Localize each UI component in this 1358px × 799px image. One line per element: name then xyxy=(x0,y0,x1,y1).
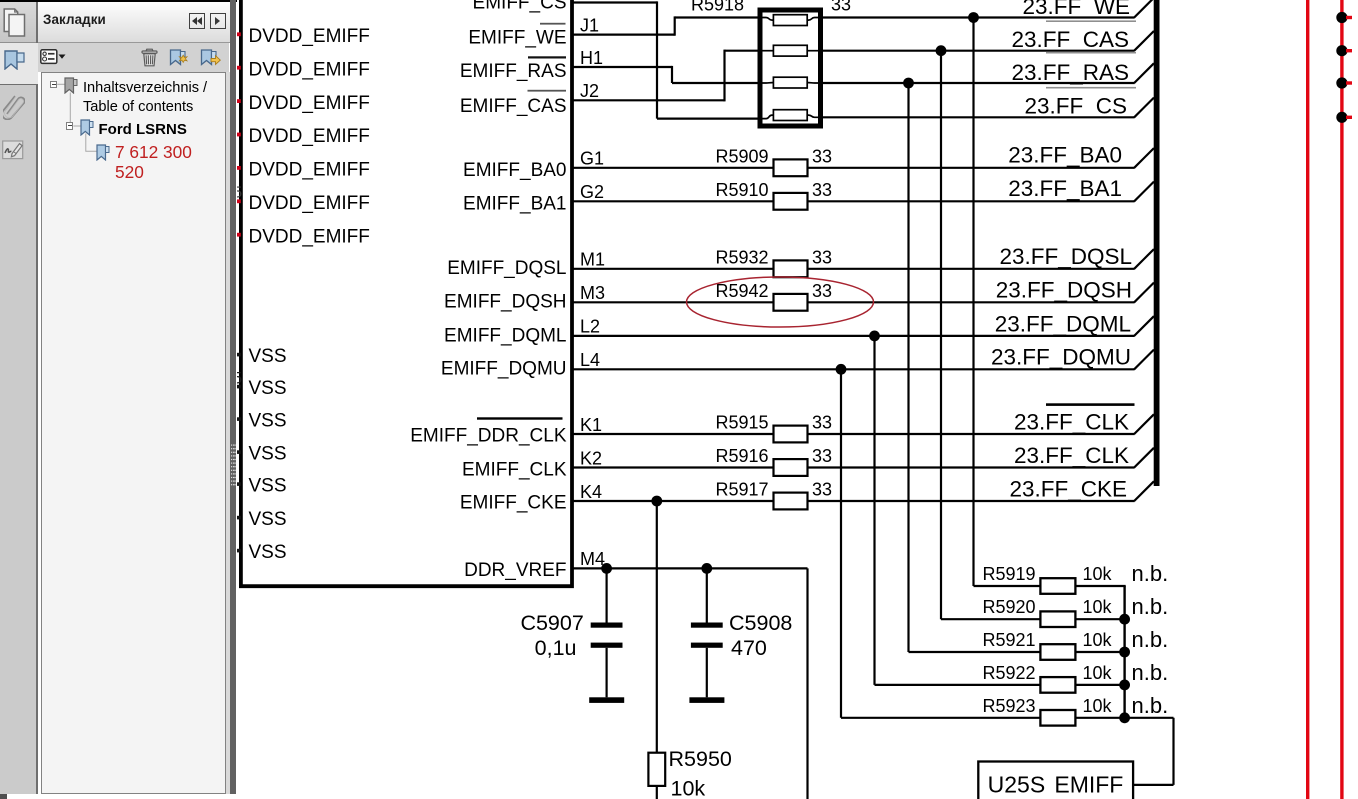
vertical net from CAS junction to R5920 xyxy=(940,51,942,620)
junction on 23.FF_WE xyxy=(968,12,979,23)
vertical net from RAS junction to R5921 xyxy=(907,83,909,652)
ghost underline row2 xyxy=(1046,52,1136,54)
sidebar divider line xyxy=(36,2,38,794)
ground pin stubs (black) on IC left edge xyxy=(235,353,241,553)
ghost underline row1 xyxy=(1046,20,1136,22)
svg-text:EMIFF_CS: EMIFF_CS xyxy=(473,0,567,14)
svg-text:M1: M1 xyxy=(580,250,605,270)
junction on 23.FF_DQML xyxy=(869,331,880,342)
bottom window strip xyxy=(0,794,237,799)
svg-text:VSS: VSS xyxy=(249,444,287,465)
resistor R5918 element 3 xyxy=(763,77,822,88)
svg-text:23.FF_DQSH: 23.FF_DQSH xyxy=(996,278,1132,303)
svg-text:R5950: R5950 xyxy=(669,747,732,771)
svg-text:K2: K2 xyxy=(580,448,602,468)
wire 23.FF_CKE xyxy=(572,500,1135,502)
vertical net from WE junction to R5919 xyxy=(972,18,974,587)
svg-text:EMIFF_DQSH: EMIFF_DQSH xyxy=(444,292,566,313)
junction pull-up tie xyxy=(1119,614,1130,625)
svg-text:23.FF_CKE: 23.FF_CKE xyxy=(1009,476,1127,501)
svg-text:23.FF_DQML: 23.FF_DQML xyxy=(995,311,1131,336)
vertical net from DQML junction to R5922 xyxy=(873,336,875,685)
svg-text:33: 33 xyxy=(812,247,832,267)
U25S EMIFF block xyxy=(978,762,1133,799)
off-page net name labels xyxy=(991,0,1132,501)
tree text 3 (red) xyxy=(115,143,192,183)
bookmarks header strip xyxy=(38,2,230,43)
tree text 2 xyxy=(99,121,187,138)
resistor R5932 xyxy=(774,260,808,277)
svg-text:R5920: R5920 xyxy=(982,597,1035,617)
wire 23.FF_DQSL xyxy=(572,268,1135,270)
tree connectors xyxy=(41,72,225,192)
bookmark tab (selected) in sidebar xyxy=(0,43,38,85)
overline for EMIFF_WE xyxy=(540,23,566,25)
pages icon cell xyxy=(0,2,36,43)
wire J1 to resistor row 1 xyxy=(572,16,758,35)
junction on 23.FF_RAS xyxy=(903,78,914,89)
svg-text:J2: J2 xyxy=(580,81,599,101)
overline for EMIFF_DDR_CLK xyxy=(477,417,563,419)
resistor R5942 xyxy=(774,294,808,311)
resistor R5918 element 1 xyxy=(763,15,822,26)
svg-text:10k: 10k xyxy=(1083,597,1113,617)
vertical net K4 node down to R5950 xyxy=(656,501,658,753)
svg-text:R5922: R5922 xyxy=(982,663,1035,683)
op-amp/IC U25 EMIFF processor block outline xyxy=(241,0,572,586)
svg-text:DDR_VREF: DDR_VREF xyxy=(464,560,566,581)
svg-text:10k: 10k xyxy=(1083,630,1113,650)
svg-text:EMIFF_DQML: EMIFF_DQML xyxy=(444,326,566,347)
svg-text:n.b.: n.b. xyxy=(1132,594,1169,619)
wire 23.FF_DQMU xyxy=(572,368,1135,370)
svg-text:10k: 10k xyxy=(1083,663,1113,683)
vertical net to U25S area xyxy=(806,568,808,799)
wire J2 to resistor row 2 xyxy=(572,50,758,102)
net 23.FF_WE wire xyxy=(820,16,1135,18)
schematic sheet red border line 2 xyxy=(1340,0,1343,799)
wire below R5950 xyxy=(656,786,658,799)
bus entry slashes xyxy=(1134,0,1154,501)
svg-text:R5916: R5916 xyxy=(715,446,768,466)
resistor R5920 xyxy=(1040,611,1075,627)
pin labels DVDD_EMIFF xyxy=(249,26,370,247)
svg-text:33: 33 xyxy=(812,180,832,200)
junction on sheet border xyxy=(1336,77,1352,88)
toolbar: trash icon xyxy=(141,48,158,67)
junction pull-up tie xyxy=(1119,647,1130,658)
capacitor C5908 xyxy=(689,568,724,702)
resistor R5916 xyxy=(774,459,808,476)
svg-text:G2: G2 xyxy=(580,182,604,202)
svg-text:EMIFF_CKE: EMIFF_CKE xyxy=(460,493,567,514)
svg-text:23.FF_CLK: 23.FF_CLK xyxy=(1014,409,1129,434)
svg-text:R5932: R5932 xyxy=(715,247,768,267)
svg-text:R5915: R5915 xyxy=(715,413,768,433)
svg-text:VSS: VSS xyxy=(249,476,287,497)
svg-text:33: 33 xyxy=(812,281,832,301)
tree icon 3 (blue bookmark) xyxy=(96,144,110,161)
net 23.FF_RAS wire xyxy=(820,82,1135,84)
overline for EMIFF_CAS xyxy=(528,90,567,92)
wire R5921 row xyxy=(909,651,1126,653)
toolbar strip xyxy=(38,43,229,72)
wire 23.FF_CLK(DDR) xyxy=(572,433,1135,435)
svg-text:EMIFF_DQSL: EMIFF_DQSL xyxy=(447,258,566,279)
svg-text:VSS: VSS xyxy=(249,411,287,432)
wire 23.FF_DQSH xyxy=(572,301,1135,303)
header button 2 (next) xyxy=(210,13,226,29)
svg-text:23.FF_BA0: 23.FF_BA0 xyxy=(1008,143,1122,168)
wire R5923 row xyxy=(841,717,1126,719)
resistor R5919 xyxy=(1040,578,1075,594)
vertical net from DQMU junction to R5923 xyxy=(840,369,842,718)
resistor network R5918 outline xyxy=(760,10,821,126)
svg-text:EMIFF_BA0: EMIFF_BA0 xyxy=(463,160,566,181)
svg-text:C5907: C5907 xyxy=(520,611,583,635)
resistor R5921 xyxy=(1040,644,1075,660)
svg-text:J1: J1 xyxy=(580,15,599,35)
resistor R5922 xyxy=(1040,677,1075,693)
svg-text:K4: K4 xyxy=(580,482,602,502)
svg-text:R5909: R5909 xyxy=(715,146,768,166)
svg-text:23.FF_DQSL: 23.FF_DQSL xyxy=(999,244,1132,269)
svg-text:33: 33 xyxy=(812,446,832,466)
vertical bus line xyxy=(1154,0,1160,486)
overline for EMIFF_RAS xyxy=(528,56,566,58)
svg-text:M3: M3 xyxy=(580,283,605,303)
svg-text:EMIFF_BA1: EMIFF_BA1 xyxy=(463,193,566,214)
svg-text:10k: 10k xyxy=(1083,696,1113,716)
svg-text:DVDD_EMIFF: DVDD_EMIFF xyxy=(249,160,370,181)
svg-text:n.b.: n.b. xyxy=(1132,660,1169,685)
net 23.FF_CS wire xyxy=(820,116,1135,118)
svg-text:23.FF_CAS: 23.FF_CAS xyxy=(1011,27,1129,52)
svg-text:DVDD_EMIFF: DVDD_EMIFF xyxy=(249,193,370,214)
svg-text:EMIFF_DQMU: EMIFF_DQMU xyxy=(441,359,567,380)
vertical tie of pull-up block xyxy=(1123,586,1125,718)
tree panel xyxy=(41,72,226,794)
tree minus box 2 xyxy=(66,122,73,129)
wire EMIFF_CS from IC to resistor row 4 xyxy=(572,1,758,118)
svg-text:23.FF_BA1: 23.FF_BA1 xyxy=(1008,176,1122,201)
resistor R5918 element 4 xyxy=(763,110,822,121)
svg-text:C5908: C5908 xyxy=(729,611,792,635)
svg-text:n.b.: n.b. xyxy=(1132,627,1169,652)
wire 23.FF_BA1 xyxy=(572,200,1135,202)
resistor R5915 xyxy=(774,426,808,443)
toolbar: export bookmark icon xyxy=(200,49,221,67)
junction pull-up tie xyxy=(1119,680,1130,691)
junction on sheet border xyxy=(1336,12,1352,23)
tree text 1 xyxy=(83,79,207,117)
toolbar: new bookmark icon xyxy=(169,49,189,67)
svg-text:33: 33 xyxy=(812,413,832,433)
svg-text:33: 33 xyxy=(831,0,851,15)
toolbar: options icon xyxy=(40,49,66,65)
resistor R5923 xyxy=(1040,710,1075,726)
paperclip icon xyxy=(3,92,25,120)
svg-text:23.FF_DQMU: 23.FF_DQMU xyxy=(991,345,1131,370)
svg-text:EMIFF_CLK: EMIFF_CLK xyxy=(462,460,567,481)
dark separator strip between panel and document xyxy=(230,0,236,794)
tree icon 1 (gray bookmark) xyxy=(64,77,78,94)
svg-text:M4: M4 xyxy=(580,549,605,569)
schematic sheet red border line 1 xyxy=(1306,0,1309,799)
svg-text:DVDD_EMIFF: DVDD_EMIFF xyxy=(249,126,370,147)
svg-text:10k: 10k xyxy=(1083,564,1113,584)
svg-text:EMIFF_RAS: EMIFF_RAS xyxy=(460,61,567,82)
svg-text:VSS: VSS xyxy=(249,346,287,367)
junction pull-up tie xyxy=(1119,712,1130,723)
svg-text:EMIFF_CAS: EMIFF_CAS xyxy=(460,96,567,117)
bookmark tab icon xyxy=(3,50,26,70)
wire R5922 row xyxy=(875,684,1126,686)
capacitor C5907 xyxy=(589,568,624,702)
IC right-side pin names xyxy=(410,0,567,581)
svg-text:R5919: R5919 xyxy=(982,564,1035,584)
svg-text:23.FF_WE: 23.FF_WE xyxy=(1022,0,1130,19)
svg-text:VSS: VSS xyxy=(249,509,287,530)
tree icon 2 (blue bookmark) xyxy=(80,119,94,136)
svg-text:VSS: VSS xyxy=(249,378,287,399)
junction at C5908 branch xyxy=(701,563,712,574)
resistor R5917 xyxy=(774,493,808,510)
svg-text:EMIFF_DDR_CLK: EMIFF_DDR_CLK xyxy=(410,426,567,447)
wire H1 to resistor row 3 xyxy=(572,66,758,83)
sidebar strip xyxy=(0,2,36,794)
wire 23.FF_DQML xyxy=(572,335,1135,337)
svg-text:33: 33 xyxy=(812,480,832,500)
svg-text:10k: 10k xyxy=(671,777,706,799)
svg-text:23.FF_CLK: 23.FF_CLK xyxy=(1014,443,1129,468)
svg-text:33: 33 xyxy=(812,146,832,166)
svg-text:EMIFF_WE: EMIFF_WE xyxy=(468,27,566,48)
svg-text:n.b.: n.b. xyxy=(1132,561,1169,586)
wire 23.FF_CLK xyxy=(572,466,1135,468)
svg-text:470: 470 xyxy=(731,636,767,660)
junction on sheet border xyxy=(1336,45,1352,56)
svg-text:R5918: R5918 xyxy=(691,0,744,15)
svg-text:R5942: R5942 xyxy=(715,281,768,301)
pin labels VSS xyxy=(249,346,287,563)
junction at C5907 branch xyxy=(601,563,612,574)
svg-text:23.FF_CS: 23.FF_CS xyxy=(1024,94,1127,119)
wire 23.FF_BA0 xyxy=(572,167,1135,169)
wire R5919 row xyxy=(974,585,1126,587)
svg-text:DVDD_EMIFF: DVDD_EMIFF xyxy=(249,226,370,247)
resistor R5918 element 2 xyxy=(763,45,822,56)
header button 1 (collapse) xyxy=(189,13,205,29)
svg-text:DVDD_EMIFF: DVDD_EMIFF xyxy=(249,26,370,47)
tree minus box 1 xyxy=(50,81,57,88)
resistor R5909 xyxy=(774,159,808,176)
svg-text:DVDD_EMIFF: DVDD_EMIFF xyxy=(249,93,370,114)
junction on sheet border xyxy=(1336,112,1352,123)
svg-text:H1: H1 xyxy=(580,48,603,68)
wire DDR_VREF (M4) xyxy=(572,567,808,569)
resistor R5950 xyxy=(648,753,665,786)
svg-text:0,1u: 0,1u xyxy=(535,636,577,660)
power pin stubs (red) on IC left edge xyxy=(235,32,241,236)
junction on 23.FF_CAS xyxy=(936,45,947,56)
svg-text:K1: K1 xyxy=(580,415,602,435)
svg-text:L2: L2 xyxy=(580,317,600,337)
pages icon xyxy=(3,8,29,39)
svg-text:R5910: R5910 xyxy=(715,180,768,200)
resistor R5910 xyxy=(774,193,808,210)
svg-text:R5923: R5923 xyxy=(982,696,1035,716)
ghost underline row3 xyxy=(1046,87,1136,89)
pin numbers on IC right edge xyxy=(580,15,605,569)
svg-text:U25S EMIFF: U25S EMIFF xyxy=(988,772,1124,798)
svg-text:L4: L4 xyxy=(580,350,600,370)
svg-text:R5921: R5921 xyxy=(982,630,1035,650)
svg-text:23.FF_RAS: 23.FF_RAS xyxy=(1011,60,1129,85)
svg-text:R5917: R5917 xyxy=(715,480,768,500)
svg-text:G1: G1 xyxy=(580,149,604,169)
wire R5920 row xyxy=(941,618,1126,620)
svg-text:DVDD_EMIFF: DVDD_EMIFF xyxy=(249,59,370,80)
header title xyxy=(43,12,106,27)
junction on 23.FF_DQMU xyxy=(836,364,847,375)
junction on EMIFF_CKE wire xyxy=(651,496,662,507)
red highlight ellipse around R5942 xyxy=(687,277,874,327)
wire from R5923 node to U25S xyxy=(1125,718,1174,785)
svg-text:n.b.: n.b. xyxy=(1132,693,1169,718)
net 23.FF_CAS wire xyxy=(820,50,1135,52)
svg-text:VSS: VSS xyxy=(249,542,287,563)
signature icon xyxy=(2,140,24,160)
overline for 23.FF_CLK xyxy=(1046,403,1135,406)
top black border xyxy=(0,0,237,2)
